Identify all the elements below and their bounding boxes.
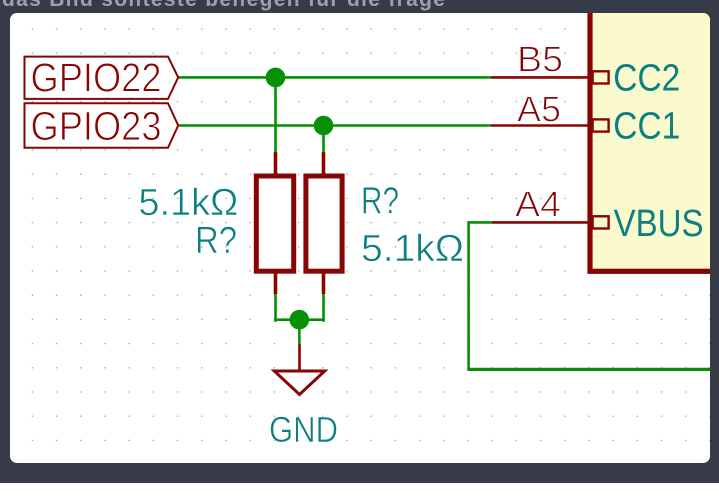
wire VBUS vertical drop [467,221,470,371]
wire R2 bottom down [322,293,325,322]
wire junction2 down to R2 [322,126,325,153]
pin B5 line [491,71,609,83]
pin A5 line [491,119,609,131]
power symbol GND [274,344,324,395]
svg-text:GND: GND [269,409,338,450]
svg-text:A5: A5 [517,88,561,129]
junction dot J1 [266,68,286,88]
wire VBUS pin to vertical [469,221,492,224]
svg-text:CC1: CC1 [613,106,680,148]
svg-text:5.1kΩ: 5.1kΩ [138,182,238,224]
resistor R1 [256,152,293,294]
svg-text:VBUS: VBUS [614,203,704,245]
svg-text:R?: R? [195,220,237,262]
svg-text:GPIO23: GPIO23 [31,103,162,149]
hierarchical label GPIO22 [25,54,179,100]
svg-text:CC2: CC2 [613,58,680,100]
resistor R2 [306,152,342,294]
IC U1 body [590,0,719,271]
pin A4 line [492,216,609,228]
wire R1 bottom down [274,293,277,322]
wire VBUS bottom horizontal [469,368,712,371]
wire junction3 down to GND [298,320,301,345]
wire GPIO22 to pin B5 [178,76,491,79]
junction dot J2 [314,116,334,136]
svg-text:A4: A4 [515,184,561,225]
svg-text:5.1kΩ: 5.1kΩ [361,228,464,270]
svg-text:R?: R? [361,181,399,223]
wire bottom horizontal join [274,318,325,321]
wire junction1 down to R1 [274,77,277,152]
svg-text:B5: B5 [517,39,563,80]
hierarchical label GPIO23 [25,103,179,149]
junction dot J3 [290,310,310,330]
wire GPIO23 to pin A5 [178,124,491,127]
svg-text:GPIO22: GPIO22 [31,54,162,100]
